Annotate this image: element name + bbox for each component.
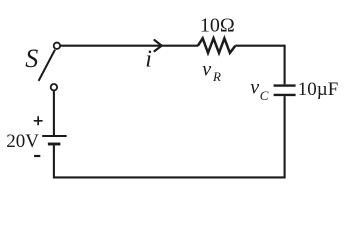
svg-text:v: v: [202, 58, 211, 80]
battery short plate (negative): [48, 143, 61, 146]
svg-text:R: R: [212, 69, 221, 84]
svg-text:20V: 20V: [6, 131, 39, 152]
switch S blade: [39, 50, 55, 81]
switch S bottom terminal: [51, 84, 57, 90]
wire capacitor down, bottom wire, up to battery minus: [54, 96, 285, 177]
svg-text:i: i: [145, 47, 152, 73]
svg-text:S: S: [25, 44, 38, 73]
switch S top terminal: [54, 43, 60, 49]
resistor R1 10ohm: [198, 38, 235, 53]
current arrow: [155, 40, 162, 51]
wire switch bottom terminal to battery top: [53, 91, 55, 136]
wire top (switch to resistor): [60, 45, 198, 47]
svg-text:10Ω: 10Ω: [200, 15, 235, 37]
svg-text:C: C: [260, 88, 269, 103]
svg-text:v: v: [250, 77, 259, 99]
capacitor C1 top plate: [274, 84, 296, 86]
battery minus sign: [34, 155, 40, 157]
battery plus sign: [34, 116, 43, 125]
wire resistor to top-right corner down to capacitor: [235, 46, 284, 85]
battery long plate (positive): [42, 135, 66, 137]
svg-text:10µF: 10µF: [298, 79, 339, 100]
capacitor C1 bottom plate: [274, 94, 296, 96]
